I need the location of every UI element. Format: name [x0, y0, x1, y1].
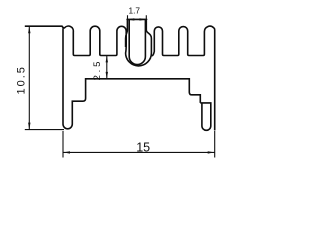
dimension 2.5 middle line — [106, 56, 108, 78]
dimension 1.7 top: extension ticks — [128, 15, 147, 20]
arrow right 15 — [208, 151, 215, 153]
svg-text:1.7: 1.7 — [129, 5, 141, 15]
dimension 15 line — [63, 151, 215, 153]
arrow down 2.5 — [106, 72, 108, 79]
arrow up 2.5 — [106, 56, 108, 63]
svg-text:2.5: 2.5 — [92, 59, 103, 81]
profile right half: fin4, fin5, right leg with hook slot, bottom bridge — [152, 26, 215, 130]
arrow left 1.7 — [128, 18, 135, 20]
dimension 10.5 line — [28, 27, 30, 129]
arrow left 15 — [63, 151, 70, 153]
svg-text:10.5: 10.5 — [15, 65, 27, 94]
dimension 10.5 left: extension line bottom — [25, 129, 64, 131]
dimension 15 bottom: extension lines — [63, 131, 215, 158]
arrow up 10.5 — [28, 27, 30, 34]
central screw-port inner slot — [129, 19, 145, 64]
dimension 1.7 line — [126, 18, 147, 20]
heatsink profile outline — [25, 19, 152, 66]
arrow down 10.5 — [28, 123, 30, 130]
svg-text:15: 15 — [136, 141, 150, 155]
right leg slot U, interior steps, bridge bottom, left leg hook — [63, 28, 211, 130]
arrow right 1.7 — [140, 18, 147, 20]
